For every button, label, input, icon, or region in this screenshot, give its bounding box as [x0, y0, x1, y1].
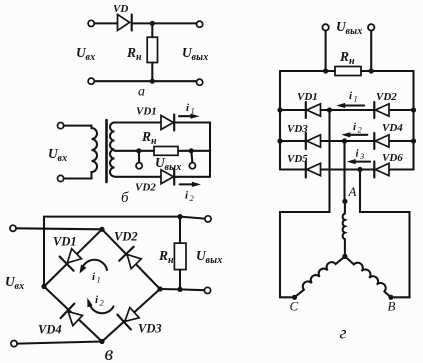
- wire top bus (g): [280, 70, 414, 72]
- terminal stub left (b): [138, 151, 140, 163]
- node dot tap3 (g): [357, 167, 362, 172]
- svg-text:i: i: [92, 271, 96, 283]
- node dot mid-right (b): [189, 148, 194, 153]
- svg-text:VD4: VD4: [382, 122, 403, 134]
- terminal out left (g): [322, 24, 328, 30]
- diode VD3 (v): [117, 305, 141, 329]
- terminal in bottom (v): [11, 341, 17, 347]
- svg-text:VD2: VD2: [114, 230, 138, 244]
- svg-text:R: R: [158, 248, 168, 263]
- svg-text:б: б: [121, 190, 129, 206]
- arrow i2 (g): [341, 132, 367, 137]
- svg-text:i: i: [356, 148, 360, 160]
- diode VD6 (g): [374, 162, 389, 178]
- arrow i1 (b): [179, 114, 200, 119]
- wire tap1 down (g): [280, 110, 330, 297]
- wire tap3 down (g): [360, 170, 410, 298]
- transformer core: [105, 120, 108, 182]
- svg-text:C: C: [290, 299, 299, 314]
- wire to terminal out top (v): [180, 217, 205, 219]
- node dot bottom vertex (v): [99, 339, 104, 344]
- svg-text:2: 2: [100, 298, 105, 308]
- arrow i2 (b): [180, 182, 201, 187]
- primary winding: [64, 126, 97, 179]
- svg-text:1: 1: [354, 94, 358, 104]
- wire resistor top stub (a): [151, 23, 153, 37]
- node dot B (g): [388, 295, 393, 300]
- svg-text:вых: вых: [165, 162, 182, 173]
- arrow i3 (g): [347, 159, 370, 164]
- svg-text:1: 1: [191, 106, 195, 116]
- wire tap2 down to A (g): [343, 141, 345, 201]
- node dot left vertex (v): [41, 284, 46, 289]
- svg-text:VD1: VD1: [297, 91, 318, 103]
- svg-text:вх: вх: [58, 153, 68, 164]
- node dot C (g): [292, 295, 297, 300]
- svg-text:вых: вых: [206, 255, 223, 266]
- node dots left bus rows (g): [277, 107, 282, 112]
- wire in bottom (v): [17, 342, 102, 344]
- terminal out bottom (v): [204, 287, 210, 293]
- wire terminal drop left (g): [325, 31, 327, 71]
- svg-text:вх: вх: [86, 52, 96, 63]
- arrow arc i1 (v): [80, 260, 108, 274]
- svg-text:2: 2: [358, 125, 363, 135]
- svg-text:VD2: VD2: [135, 182, 156, 194]
- wire top right (a): [132, 22, 197, 24]
- diamond edge VD1 (v): [44, 229, 102, 286]
- terminal bottom-right (a): [197, 79, 203, 85]
- svg-text:R: R: [126, 45, 136, 60]
- svg-text:i: i: [353, 121, 357, 133]
- arrow arc i2 (v): [87, 298, 113, 313]
- wire top bus (v): [44, 217, 180, 287]
- svg-text:3: 3: [359, 151, 364, 161]
- svg-text:VD4: VD4: [38, 323, 62, 337]
- wire terminal drop right (g): [370, 31, 372, 71]
- terminal out right (g): [368, 24, 374, 30]
- terminal primary bottom: [58, 175, 64, 181]
- svg-text:VD: VD: [113, 3, 128, 15]
- terminal primary top: [58, 123, 64, 129]
- terminal bottom-left (a): [88, 78, 94, 84]
- wire top (a): [94, 22, 117, 24]
- diode VD1 (g): [306, 102, 321, 118]
- node dot tap2 (g): [342, 138, 347, 143]
- svg-text:VD1: VD1: [136, 106, 157, 118]
- diode VD5 (g): [306, 162, 321, 178]
- svg-text:R: R: [339, 49, 349, 64]
- node dot A (g): [342, 199, 347, 204]
- arrow i1 (g): [336, 103, 364, 108]
- svg-text:A: A: [348, 184, 357, 199]
- diode VD4 (v): [61, 304, 85, 328]
- wire secondary top: [115, 121, 162, 123]
- terminal in top (v): [10, 225, 16, 231]
- wire secondary middle tap: [115, 150, 155, 152]
- diode VD2 (v): [119, 247, 143, 271]
- svg-text:вых: вых: [192, 52, 209, 63]
- winding phase A (g): [343, 201, 345, 256]
- svg-text:вх: вх: [15, 281, 25, 292]
- terminal stub right (b): [191, 151, 192, 163]
- diode VD1 (b): [161, 115, 174, 131]
- svg-text:VD3: VD3: [287, 123, 308, 135]
- winding phase C (g): [295, 256, 345, 297]
- wire bottom to bus (b): [174, 176, 210, 178]
- diode VD4 (g): [374, 133, 389, 149]
- svg-text:i: i: [186, 102, 190, 114]
- terminal out top (v): [205, 216, 211, 222]
- svg-text:VD3: VD3: [138, 322, 162, 336]
- svg-text:1: 1: [97, 275, 101, 285]
- wire row2 (g): [280, 140, 414, 142]
- svg-text:VD6: VD6: [382, 152, 403, 164]
- wire right bus (g): [412, 71, 414, 170]
- node dot star center (g): [342, 254, 347, 259]
- wire bottom (a): [94, 80, 199, 83]
- terminal top-right (a): [197, 21, 203, 27]
- resistor R_n (v): [174, 243, 186, 270]
- node dot drop right (g): [369, 68, 374, 73]
- node dot bottom (a): [150, 79, 155, 84]
- diamond edge VD3 (v): [102, 289, 160, 342]
- svg-text:i: i: [349, 90, 353, 102]
- terminal out right (b): [189, 163, 195, 169]
- svg-text:2: 2: [190, 193, 195, 203]
- svg-text:VD1: VD1: [53, 235, 77, 249]
- wire resistor bottom stub (a): [151, 63, 153, 82]
- svg-text:VD5: VD5: [287, 153, 308, 165]
- node dot R bottom (v): [177, 287, 182, 292]
- node dot right vertex (v): [157, 286, 162, 291]
- svg-text:н: н: [136, 52, 142, 63]
- svg-text:а: а: [138, 85, 145, 100]
- svg-text:i: i: [95, 294, 99, 306]
- svg-text:в: в: [105, 343, 114, 363]
- wire row1 (g): [280, 109, 414, 111]
- wire mid right (b): [178, 150, 210, 152]
- node dot mid-left (b): [136, 148, 141, 153]
- svg-text:R: R: [141, 129, 151, 144]
- wire bottom right (v): [160, 289, 204, 290]
- svg-text:i: i: [185, 190, 189, 202]
- wire row3 (g): [280, 168, 414, 170]
- node dots right bus rows (g): [411, 107, 416, 112]
- svg-text:г: г: [340, 323, 347, 343]
- svg-text:н: н: [151, 136, 157, 147]
- diamond edge VD2 (v): [102, 229, 160, 289]
- diamond edge VD4 (v): [44, 287, 102, 342]
- node dot top (a): [150, 21, 155, 26]
- winding phase B (g): [345, 256, 391, 297]
- terminal out left (b): [136, 163, 142, 169]
- diode VD2 (b): [161, 169, 174, 185]
- diode VD2 (g): [374, 102, 389, 118]
- secondary winding: [110, 123, 115, 177]
- wire R vertical (v): [179, 217, 181, 290]
- svg-text:н: н: [168, 255, 174, 266]
- svg-text:н: н: [349, 56, 355, 67]
- svg-text:B: B: [388, 299, 396, 314]
- svg-text:вых: вых: [346, 26, 363, 37]
- resistor R_n (g): [335, 67, 361, 76]
- resistor R_n (b): [154, 147, 178, 156]
- node dot R top (v): [177, 214, 182, 219]
- terminal top-left (a): [88, 20, 94, 26]
- wire secondary bottom: [115, 176, 162, 178]
- wire top to bus (b): [174, 123, 210, 177]
- node dot tap1 (g): [327, 107, 332, 112]
- wire left bus (g): [279, 71, 281, 170]
- diode VD1 (v): [60, 247, 84, 271]
- node dot drop left (g): [323, 68, 328, 73]
- node dot top vertex (v): [99, 227, 104, 232]
- svg-text:VD2: VD2: [376, 91, 397, 103]
- wire in top to top vertex (v): [16, 228, 102, 229]
- diode VD: [118, 14, 132, 30]
- diode VD3 (g): [306, 133, 321, 149]
- resistor R_n (a): [147, 37, 157, 62]
